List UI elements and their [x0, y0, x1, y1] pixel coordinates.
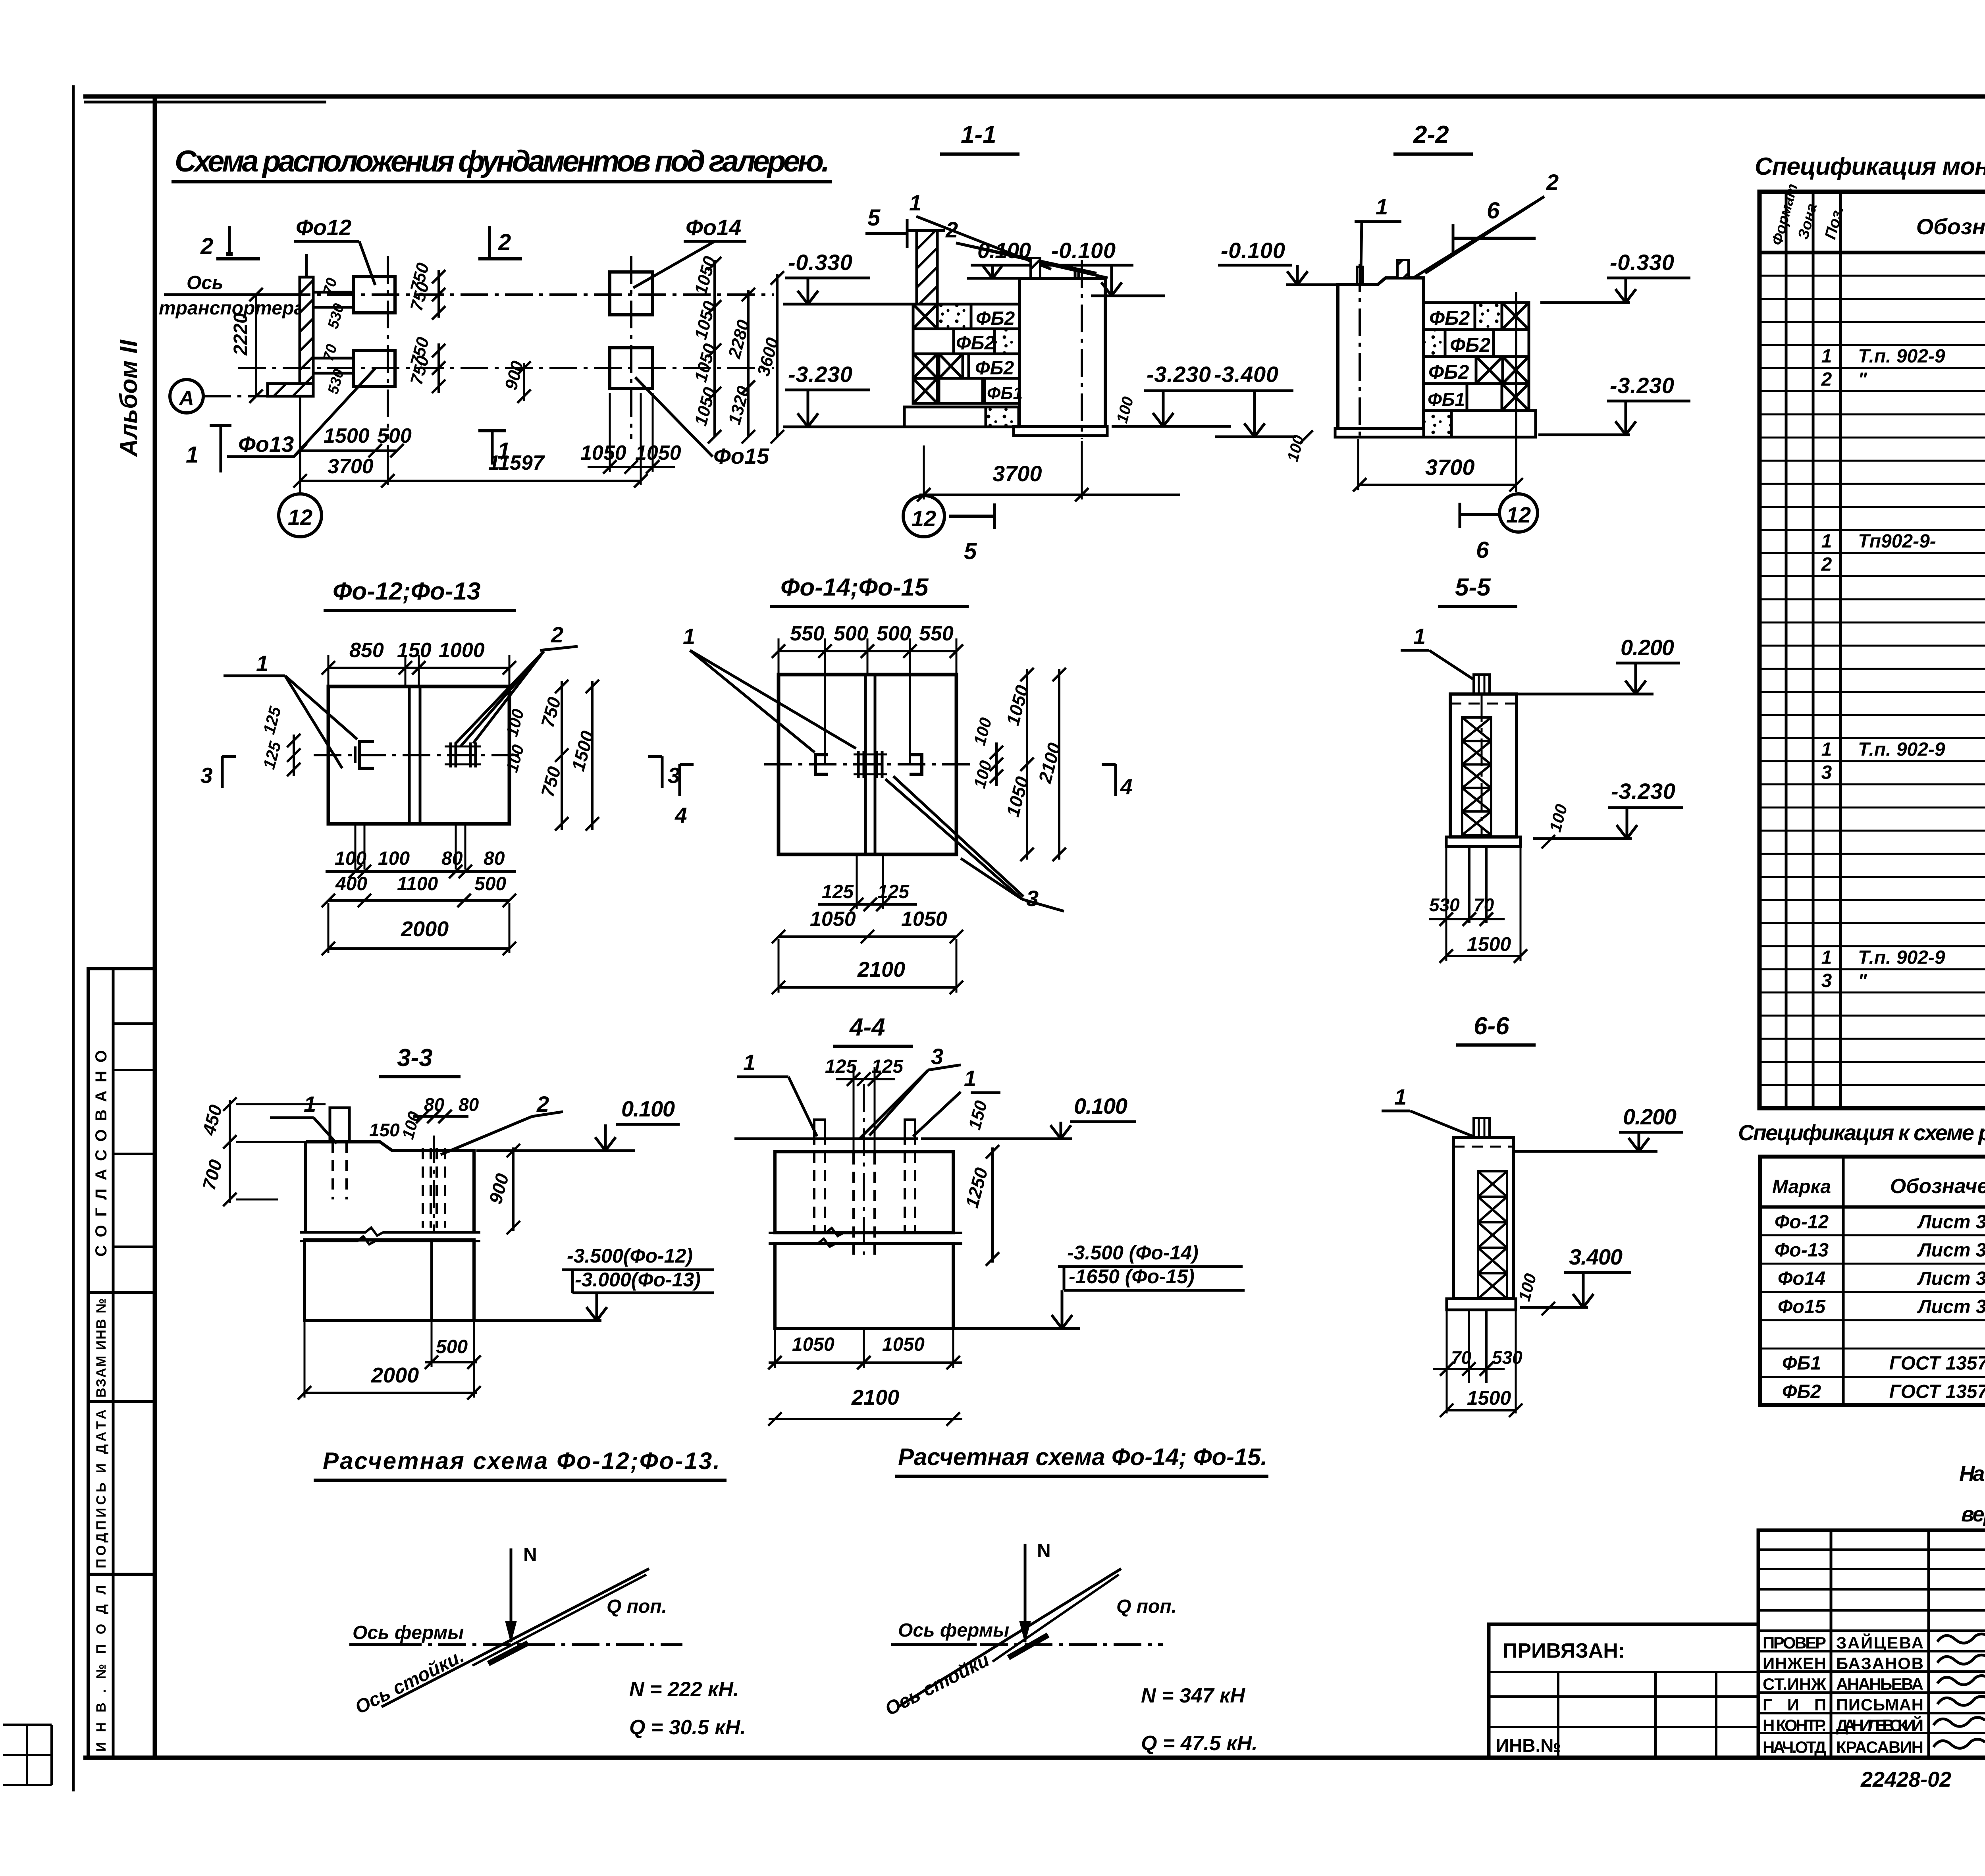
- svg-text:1050: 1050: [810, 908, 856, 931]
- svg-text:3: 3: [200, 763, 213, 788]
- svg-text:-3.230: -3.230: [788, 362, 852, 387]
- svg-text:1000: 1000: [439, 639, 485, 662]
- svg-text:3700: 3700: [328, 455, 374, 478]
- svg-text:1050: 1050: [580, 442, 626, 465]
- 1-1: elevation -3.400 right: [1212, 362, 1296, 437]
- Фо-14 plan: body square: [764, 675, 971, 854]
- 1-1: elevation -0.330 left: [783, 250, 913, 304]
- svg-text:6: 6: [1476, 537, 1489, 563]
- 2-2: masonry bottom slab: [1424, 411, 1536, 437]
- svg-text:Спецификация монолитных фундам: Спецификация монолитных фундаментов Фо 1…: [1755, 153, 1985, 180]
- title block: signatures squiggles: [1933, 1634, 1985, 1748]
- svg-text:5: 5: [964, 538, 977, 564]
- section 2-2 title: [1393, 121, 1473, 154]
- svg-text:ЗАЙЦЕВА: ЗАЙЦЕВА: [1836, 1633, 1923, 1652]
- svg-text:550: 550: [919, 622, 954, 645]
- 4-4: dims 1050 1050: [768, 1330, 962, 1369]
- svg-text:Ось фермы: Ось фермы: [898, 1620, 1009, 1641]
- 2-2: dim 3700: [1353, 439, 1523, 492]
- svg-text:500: 500: [474, 873, 506, 895]
- 3-3: callout 1: [270, 1091, 337, 1143]
- svg-text:-3.500(Фо-12): -3.500(Фо-12): [567, 1245, 693, 1267]
- svg-text:ФБ2: ФБ2: [976, 308, 1015, 329]
- svg-text:150: 150: [369, 1120, 400, 1140]
- Фо-12 plan: top dims 850 150 1000: [322, 639, 516, 686]
- 1-1: callout 2: [945, 217, 1108, 278]
- svg-text:70: 70: [1451, 1347, 1472, 1368]
- svg-text:Фо-12: Фо-12: [1775, 1211, 1829, 1232]
- svg-text:3.400: 3.400: [1569, 1244, 1623, 1269]
- 6-6: reinforcement cage: [1478, 1171, 1507, 1299]
- svg-text:500: 500: [377, 424, 412, 447]
- svg-text:1: 1: [1394, 1084, 1407, 1109]
- 3-3: dim 500: [425, 1322, 481, 1369]
- calc 1: value Q=30.5: [629, 1716, 746, 1739]
- svg-text:1500: 1500: [324, 424, 370, 447]
- 6-6: bottom flange: [1447, 1299, 1516, 1310]
- svg-text:Т.п. 902-9: Т.п. 902-9: [1858, 739, 1945, 760]
- 5-5: dims 530 70: [1429, 895, 1505, 926]
- svg-text:НАЧ.ОТД: НАЧ.ОТД: [1763, 1738, 1826, 1756]
- 1-1: dim 100 flange: [1113, 395, 1137, 425]
- plan: dim 3700 11597: [293, 393, 648, 488]
- 3-3: dim 150: [369, 1120, 400, 1140]
- calc 2: N force arrow: [1019, 1541, 1051, 1644]
- 2-2: masonry row 1: [1424, 303, 1529, 330]
- svg-text:2220: 2220: [230, 313, 251, 356]
- svg-text:1050: 1050: [882, 1334, 925, 1355]
- svg-text:-3.230: -3.230: [1610, 373, 1674, 398]
- Фо-12 plan: left dims 125 125: [259, 704, 301, 776]
- svg-text:Фо12: Фо12: [296, 215, 351, 240]
- 5-5: reinforcement cage: [1462, 717, 1491, 835]
- title block: staff names: [1763, 1633, 1923, 1756]
- Фо-14 plan: right dims 100 100: [970, 715, 1003, 790]
- svg-text:2: 2: [536, 1091, 549, 1116]
- plan: right dim chain 1050x4: [691, 254, 721, 443]
- svg-text:ФБ1: ФБ1: [1782, 1353, 1821, 1374]
- plan: dim 750x2 upper: [407, 260, 445, 320]
- spec table 1 row 3 item Фо15: [1821, 970, 1985, 991]
- 3-3: dim 100 rotated: [398, 1109, 424, 1141]
- svg-text:80: 80: [459, 1094, 479, 1115]
- svg-text:ФБ2: ФБ2: [1428, 361, 1469, 383]
- svg-text:Лист 37: Лист 37: [1917, 1296, 1985, 1317]
- svg-text:1500: 1500: [1467, 933, 1511, 955]
- 4-4: dim 2100: [768, 1386, 962, 1426]
- 1-1: masonry block row 2: [913, 329, 1019, 354]
- svg-text:1100: 1100: [397, 873, 438, 895]
- 3-3: elevation labels -3.500 -3.000: [562, 1245, 714, 1321]
- svg-text:Фо-14;Фо-15: Фо-14;Фо-15: [781, 574, 929, 601]
- svg-text:Q поп.: Q поп.: [607, 1596, 667, 1617]
- svg-text:ИНЖЕН: ИНЖЕН: [1763, 1654, 1826, 1673]
- 3-3: callout 2: [441, 1091, 563, 1155]
- svg-text:2: 2: [551, 622, 563, 647]
- 6-6: elevation 3.400: [1520, 1244, 1631, 1307]
- svg-text:1: 1: [964, 1066, 976, 1091]
- 4-4: elevation 0.100: [921, 1093, 1136, 1139]
- svg-text:125: 125: [822, 881, 854, 902]
- svg-text:2: 2: [1546, 170, 1559, 195]
- Фо-12 plan: inner dims 100 100: [502, 707, 528, 774]
- svg-text:ФБ2: ФБ2: [975, 358, 1014, 379]
- 3-3: body outline: [300, 1142, 480, 1244]
- svg-text:ПРОВЕР: ПРОВЕР: [1763, 1633, 1826, 1652]
- spec table 2 row Фо14: [1778, 1268, 1985, 1289]
- 4-4: elevation labels -3.500 -1650: [1052, 1242, 1245, 1328]
- Фо-14 plan: right dims 1050 1050: [1002, 668, 1034, 861]
- 4-4: callout 3: [860, 1044, 961, 1139]
- svg-text:2: 2: [1821, 369, 1832, 390]
- svg-text:ФБ2: ФБ2: [1429, 307, 1470, 329]
- 1-1: brick pillar hatched: [907, 231, 945, 304]
- svg-text:2: 2: [498, 229, 511, 255]
- plan: dim 900: [501, 359, 531, 403]
- spec table 2 header texts: [1772, 1166, 1985, 1207]
- svg-text:Лист 37: Лист 37: [1917, 1240, 1985, 1261]
- svg-text:Q поп.: Q поп.: [1116, 1596, 1177, 1617]
- spec table 1 row 1 item Фо15: [1821, 947, 1985, 968]
- svg-text:11597: 11597: [488, 451, 545, 474]
- svg-text:ИНВ.№: ИНВ.№: [1496, 1735, 1561, 1756]
- 1-1: grid circle 12: [903, 496, 994, 564]
- svg-text:ВЗАМ ИНВ №: ВЗАМ ИНВ №: [94, 1298, 109, 1398]
- margin box ПОДПИСЬ И ДАТА: [88, 1402, 155, 1574]
- svg-text:Фо13: Фо13: [238, 432, 294, 457]
- 2-2: elevation -0.330 right: [1540, 250, 1690, 303]
- svg-text:3: 3: [1026, 886, 1039, 911]
- plan: axis A circle and line: [170, 380, 314, 413]
- svg-text:1050: 1050: [901, 908, 947, 931]
- margin box ИНВ №ПОДЛ: [88, 1574, 155, 1758]
- 6-6: elevation 0.200: [1515, 1104, 1683, 1151]
- 5-5: dim 1500: [1440, 933, 1527, 963]
- Фо-12 plan: body square: [314, 686, 524, 824]
- Фо-12 plan: callout 2: [456, 622, 578, 746]
- note text line 1: [1959, 1462, 1985, 1486]
- Фо-14 plan: section mark 4 left: [675, 764, 694, 827]
- svg-text:верхнего обреза фундамента.: верхнего обреза фундамента.: [1961, 1502, 1985, 1526]
- svg-text:500: 500: [877, 622, 911, 645]
- calc 2: truss axis line: [891, 1620, 1163, 1645]
- frame left border: [153, 96, 157, 1758]
- section 3-3 title: [379, 1044, 461, 1077]
- Фо-12 plan: section mark 3 right: [648, 756, 680, 788]
- Фо-12 plan: dims 100 100 80 80: [326, 848, 516, 878]
- calc 1: stand axis diagonal: [382, 1569, 649, 1707]
- svg-text:1: 1: [743, 1050, 755, 1075]
- 2-2: elevation -0.100 left: [1218, 238, 1338, 285]
- spec table 1 row 2 item Фо13: [1821, 554, 1985, 575]
- plan: label Фо15 with leader: [635, 377, 769, 469]
- svg-text:0.200: 0.200: [1623, 1104, 1677, 1129]
- svg-text:Фо15: Фо15: [1778, 1296, 1826, 1317]
- spec table 1 grid: [1760, 192, 1985, 1108]
- plan Фо-14;Фо-15 title: [770, 574, 969, 607]
- svg-text:3: 3: [1821, 762, 1832, 783]
- spec table 2 row Фо-12: [1775, 1211, 1985, 1232]
- svg-text:Ось фермы: Ось фермы: [353, 1622, 464, 1643]
- 2-2: callout 2: [1413, 170, 1559, 278]
- 6-6: dims 70 530: [1433, 1347, 1522, 1376]
- plan: axis row 1 dash-dot: [238, 293, 774, 296]
- Фо-12 plan: right dim 1500: [567, 680, 599, 831]
- svg-text:N: N: [523, 1544, 537, 1566]
- 1-1: callout 1: [909, 190, 1051, 269]
- plan: foundation Фо14 rect: [610, 272, 653, 315]
- svg-text:1: 1: [909, 190, 921, 215]
- svg-text:Фо14: Фо14: [1778, 1268, 1825, 1289]
- svg-text:Т.п. 902-9: Т.п. 902-9: [1858, 346, 1945, 367]
- svg-text:2100: 2100: [857, 958, 905, 981]
- Фо-12 plan: anchor item 1 C-shape: [355, 742, 374, 768]
- margin label Альбом II: [115, 339, 143, 457]
- svg-text:1: 1: [1821, 531, 1832, 552]
- section 4-4 title: [833, 1014, 913, 1046]
- plan: dim 1050 1050 bottom: [580, 393, 681, 474]
- 5-5: dim 100 rotated: [1542, 802, 1571, 848]
- Фо-12 plan: dim 2000: [322, 903, 516, 955]
- calc scheme 2 title: [895, 1444, 1268, 1476]
- svg-text:ГОСТ 13579-78: ГОСТ 13579-78: [1889, 1353, 1985, 1374]
- 4-4: body outline: [769, 1152, 962, 1247]
- Фо-14 plan: right dim 2100: [1034, 668, 1066, 861]
- plan: dim 1500 500: [293, 424, 412, 457]
- Фо-14 plan: anchor bolts center: [854, 751, 887, 778]
- svg-text:Лист 37: Лист 37: [1917, 1268, 1985, 1289]
- spec table 2 row Фо15: [1778, 1296, 1985, 1317]
- spec table 2 row Фо-13: [1775, 1240, 1985, 1261]
- frame bottom border: [83, 1756, 1985, 1760]
- svg-text:4: 4: [675, 803, 687, 827]
- svg-text:0.100: 0.100: [977, 238, 1031, 263]
- svg-text:1-1: 1-1: [961, 121, 996, 148]
- svg-text:150: 150: [397, 639, 432, 662]
- svg-text:АНАНЬЕВА: АНАНЬЕВА: [1836, 1675, 1923, 1693]
- title block: staff table grid: [1758, 1530, 1985, 1758]
- svg-text:4-4: 4-4: [849, 1014, 885, 1041]
- svg-text:Спецификация к схеме расположе: Спецификация к схеме расположения фундам…: [1738, 1120, 1985, 1145]
- 6-6: callout 1: [1382, 1084, 1473, 1136]
- spec table 1 row 1 item Фо14: [1821, 739, 1985, 760]
- svg-text:1: 1: [1821, 739, 1832, 760]
- svg-text:12: 12: [1506, 502, 1531, 527]
- svg-text:80: 80: [484, 848, 505, 869]
- svg-text:БАЗАНОВ: БАЗАНОВ: [1836, 1654, 1923, 1673]
- svg-text:Схема расположения фундаментов: Схема расположения фундаментов под галер…: [175, 145, 830, 178]
- svg-text:125: 125: [825, 1056, 857, 1077]
- svg-text:2: 2: [200, 233, 213, 259]
- 5-5: elevation -3.230: [1533, 779, 1683, 839]
- spec table 1 row 2 item: [1821, 369, 1985, 390]
- svg-text:-0.100: -0.100: [1221, 238, 1285, 263]
- spec table 1 row 3 item Фо14: [1821, 762, 1985, 783]
- plan: label Фо14 with leader: [633, 215, 746, 288]
- 1-1: bottom slab row: [904, 407, 1019, 427]
- frame top border: [83, 96, 1985, 102]
- 6-6: dowels below: [1447, 1310, 1516, 1413]
- svg-text:400: 400: [335, 873, 367, 895]
- plan Фо-12;Фо-13 title: [324, 578, 516, 611]
- Фо-14 plan: bottom dim 2100: [772, 939, 963, 994]
- svg-text:Н КОНТР.: Н КОНТР.: [1763, 1716, 1826, 1735]
- svg-text:": ": [1858, 970, 1867, 991]
- svg-text:Фо15: Фо15: [713, 443, 769, 469]
- Фо-14 plan: bottom dims 125 125: [818, 856, 917, 911]
- plan: dim 2220 vertical: [230, 288, 263, 403]
- svg-text:N = 347 кН: N = 347 кН: [1141, 1684, 1245, 1707]
- svg-text:530: 530: [1429, 895, 1460, 915]
- svg-text:3-3: 3-3: [397, 1044, 433, 1072]
- Фо-14 plan: bottom dims 1050 1050: [772, 908, 963, 943]
- 4-4: dim 1250: [961, 1145, 999, 1266]
- spec table 1 row 1 item: [1821, 346, 1985, 367]
- svg-text:3700: 3700: [992, 461, 1042, 486]
- calc 1: N force arrow: [505, 1544, 537, 1644]
- svg-text:ФБ1: ФБ1: [987, 384, 1023, 403]
- svg-text:Фо14: Фо14: [686, 215, 741, 240]
- svg-text:100: 100: [378, 848, 410, 869]
- svg-text:1: 1: [1821, 346, 1832, 367]
- plan: label Ось транспортера with leader: [159, 272, 304, 319]
- plan: label Фо13 with leader: [227, 368, 375, 457]
- svg-text:Фо-13: Фо-13: [1775, 1240, 1829, 1261]
- svg-text:-0.330: -0.330: [788, 250, 852, 275]
- svg-text:3: 3: [1821, 970, 1832, 991]
- svg-text:0.100: 0.100: [621, 1096, 675, 1121]
- svg-text:Лист 37: Лист 37: [1917, 1211, 1985, 1232]
- spec table 2 grid: [1760, 1157, 1985, 1405]
- Фо-14 plan: section mark 4 right: [1102, 764, 1133, 799]
- svg-text:-0.330: -0.330: [1610, 250, 1674, 275]
- svg-text:-3.000(Фо-13): -3.000(Фо-13): [575, 1269, 701, 1291]
- 5-5: anchor bolt top: [1474, 675, 1490, 837]
- svg-text:1: 1: [1413, 624, 1426, 649]
- svg-text:ФБ2: ФБ2: [1782, 1381, 1821, 1402]
- plan: section mark 1 right: [478, 431, 510, 465]
- svg-text:Q = 30.5 кН.: Q = 30.5 кН.: [629, 1716, 746, 1739]
- svg-text:ДАНИЛЕВСКИЙ: ДАНИЛЕВСКИЙ: [1836, 1716, 1923, 1735]
- svg-text:Расчетная схема Фо-14; Фо-15.: Расчетная схема Фо-14; Фо-15.: [898, 1444, 1267, 1470]
- 1-1: elevation -3.230 left: [783, 362, 904, 427]
- svg-text:N = 222 кН.: N = 222 кН.: [629, 1678, 739, 1701]
- svg-text:1: 1: [683, 624, 695, 649]
- svg-text:Марка: Марка: [1772, 1176, 1831, 1197]
- svg-text:1050: 1050: [792, 1334, 834, 1355]
- plan: dims 530 70 necks: [320, 276, 347, 396]
- 3-3: footing lower: [304, 1240, 601, 1321]
- svg-text:2000: 2000: [371, 1363, 419, 1387]
- svg-text:Q = 47.5 кН.: Q = 47.5 кН.: [1141, 1732, 1258, 1755]
- 5-5: dowels below: [1446, 846, 1521, 961]
- Фо-14 plan: anchor C right: [910, 755, 922, 774]
- svg-text:Тп902-9-: Тп902-9-: [1858, 531, 1936, 552]
- 5-5: bottom flange: [1446, 837, 1521, 846]
- 4-4: dim 150 rotated: [965, 1098, 991, 1132]
- svg-text:2000: 2000: [401, 917, 449, 941]
- plan: foundation Фо15 rect: [610, 348, 653, 388]
- svg-text:ПРИВЯЗАН:: ПРИВЯЗАН:: [1503, 1639, 1625, 1662]
- 6-6: dim 100 rotated: [1515, 1271, 1555, 1315]
- svg-text:6-6: 6-6: [1474, 1012, 1509, 1040]
- stamp row below frame: [1860, 1764, 1985, 1795]
- svg-text:ПИСЬМАН: ПИСЬМАН: [1836, 1695, 1923, 1714]
- calc 2: label Q поп: [1116, 1596, 1177, 1617]
- svg-text:СТ.ИНЖ: СТ.ИНЖ: [1763, 1675, 1827, 1693]
- plan: foundation Фо13 rect: [313, 351, 395, 386]
- section 6-6 title: [1456, 1012, 1536, 1045]
- svg-text:1500: 1500: [1467, 1387, 1511, 1409]
- Фо-14 plan: anchor C left: [815, 755, 828, 774]
- plan: right dim chain 3600: [754, 271, 784, 443]
- svg-text:Обозначение: Обозначение: [1890, 1175, 1985, 1198]
- Фо-12 plan: dims 400 1100 500: [322, 873, 516, 907]
- calc 1: label Ось стойки: [352, 1645, 468, 1718]
- 6-6: anchor bolt top: [1474, 1118, 1490, 1138]
- 5-5: column body: [1450, 694, 1517, 837]
- calc 1: truss axis line: [349, 1622, 682, 1645]
- svg-text:Обозначение: Обозначение: [1916, 214, 1985, 239]
- svg-text:530: 530: [1492, 1347, 1522, 1368]
- svg-text:125: 125: [871, 1056, 904, 1077]
- 2-2: section mark 6 top: [1453, 198, 1536, 253]
- plan: conveyor wall hatched: [268, 254, 313, 396]
- 3-3: pedestal bolt: [330, 1108, 349, 1199]
- plan: section mark 2 right: [478, 226, 522, 259]
- svg-text:22428-02: 22428-02: [1860, 1768, 1951, 1791]
- plan: dim 750x2 lower: [407, 335, 445, 393]
- svg-text:Т.п. 902-9: Т.п. 902-9: [1858, 947, 1945, 968]
- svg-text:850: 850: [349, 639, 384, 662]
- 2-2: grid line and circle 12: [1460, 292, 1538, 563]
- margin box ВЗАМ ИНВ №: [88, 1292, 155, 1402]
- svg-text:5-5: 5-5: [1455, 574, 1491, 601]
- 4-4: floor line: [734, 1138, 918, 1140]
- svg-text:6: 6: [1487, 198, 1500, 224]
- svg-text:2100: 2100: [851, 1386, 899, 1409]
- svg-text:1: 1: [256, 651, 268, 676]
- 3-3: dim 2000: [298, 1322, 481, 1400]
- 5-5: callout 1: [1401, 624, 1473, 679]
- svg-text:2-2: 2-2: [1413, 121, 1449, 148]
- svg-text:N: N: [1037, 1541, 1051, 1562]
- plan: axis row 2 dash-dot: [238, 367, 774, 369]
- svg-text:1: 1: [186, 442, 198, 468]
- 1-1: elevation -3.230 right: [1112, 362, 1231, 426]
- svg-text:-3.500 (Фо-14): -3.500 (Фо-14): [1067, 1242, 1199, 1264]
- svg-text:5: 5: [867, 205, 881, 231]
- calc 2: label Ось стойки: [882, 1649, 993, 1720]
- Фо-12 plan: right dims 750 750: [537, 680, 569, 831]
- calc 2: value N=347: [1141, 1684, 1245, 1707]
- svg-text:0.100: 0.100: [1074, 1093, 1127, 1118]
- spec table 1 row 1 item Фо13: [1821, 531, 1985, 552]
- 2-2: masonry row 3: [1424, 357, 1529, 384]
- plan: grid axis 12 vertical and circle: [279, 256, 631, 537]
- svg-text:70: 70: [1474, 895, 1494, 915]
- plan: foundation Фо12 rect: [313, 277, 395, 313]
- 1-1: elevation 0.100: [967, 238, 1057, 278]
- 1-1: dim 3700: [917, 441, 1180, 501]
- Фо-12 plan: bolt extension lines below: [355, 824, 465, 870]
- 4-4: footing lower: [775, 1244, 1080, 1328]
- Фо-12 plan: section mark 3 left: [200, 756, 236, 788]
- 3-3: dims 80 80 top: [413, 1094, 479, 1123]
- svg-text:А: А: [178, 387, 194, 410]
- svg-text:ФБ2: ФБ2: [1450, 334, 1490, 356]
- svg-text:ФБ2: ФБ2: [956, 333, 995, 354]
